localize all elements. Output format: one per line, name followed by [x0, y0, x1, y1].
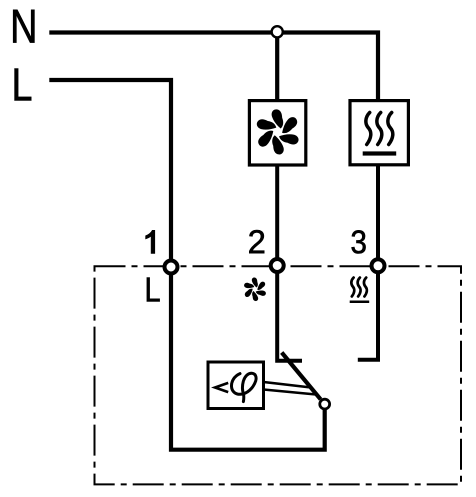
terminal 1: [165, 261, 178, 274]
switch pivot node: [320, 399, 330, 409]
junction node on N line: [272, 26, 283, 37]
terminal 3: [372, 259, 385, 272]
heater bar: [363, 151, 397, 155]
terminal function fan icon: [243, 278, 267, 302]
actuator linkage line upper: [264, 382, 312, 388]
wire fan branch drop: [275, 33, 279, 101]
wire L line down through terminal 1 and bottom run up to switch pivot: [49, 80, 324, 450]
wire fan box to terminal 2 and down to fixed contact with tick: [277, 165, 302, 361]
fan unit box: [249, 101, 305, 165]
heater unit box: [350, 101, 408, 165]
humidity sensor label <: [215, 383, 228, 392]
terminal function heat underline: [350, 301, 370, 304]
actuator linkage line lower: [264, 390, 317, 395]
wire heater box to terminal 3 and down to open contact with tick: [358, 165, 378, 360]
pin label 3: [352, 230, 366, 253]
pin label 1: [146, 230, 155, 253]
fan symbol: [255, 109, 300, 154]
humidity sensor box: [208, 362, 264, 409]
pin label 2: [249, 230, 264, 253]
label L (supply): [15, 69, 32, 101]
heater squiggles: [366, 113, 371, 145]
wire N line to heater drop: [49, 33, 378, 101]
terminal function label L: [147, 278, 160, 302]
dash-dot enclosure border: [95, 266, 462, 484]
label N: [13, 10, 34, 43]
terminal function heat icon: [351, 278, 354, 297]
humidity sensor label phi: [231, 373, 256, 401]
terminal 2: [271, 259, 284, 272]
switch blade: [282, 353, 321, 400]
